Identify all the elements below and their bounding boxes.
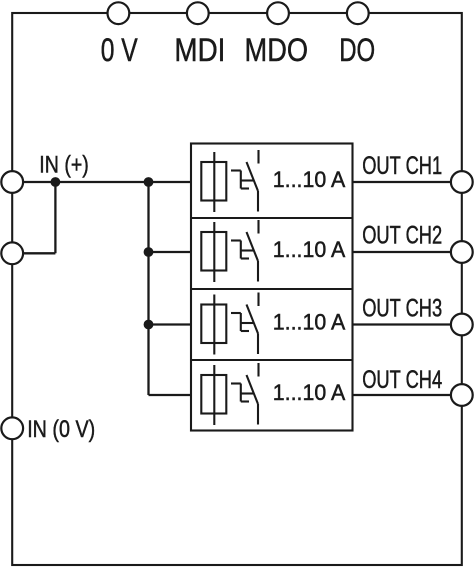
svg-text:OUT CH4: OUT CH4 [362, 366, 442, 394]
terminal DO [347, 2, 369, 24]
junction bus CH3 [144, 320, 154, 330]
terminal 0V [108, 2, 130, 24]
junction IN(+) tap [51, 177, 61, 187]
divider CH1/CH2 [191, 217, 353, 219]
electronic switch S1 (CH1) [231, 150, 259, 212]
fuse F4 (CH4) [201, 365, 226, 425]
wire output CH4 [353, 394, 462, 396]
terminal MDI [187, 2, 209, 24]
terminal OUT CH2 [451, 241, 473, 263]
terminal MDO [267, 2, 289, 24]
wire output CH2 [353, 251, 462, 253]
wire supply bus vertical [147, 182, 149, 395]
svg-text:DO: DO [339, 31, 375, 68]
svg-text:1...10 A: 1...10 A [273, 380, 346, 405]
electronic switch S3 (CH3) [231, 293, 259, 355]
divider CH2/CH3 [191, 288, 353, 290]
terminal IN(0V) [1, 417, 23, 439]
svg-text:OUT CH1: OUT CH1 [362, 152, 442, 180]
svg-text:0 V: 0 V [101, 31, 138, 68]
svg-text:1...10 A: 1...10 A [273, 167, 346, 192]
svg-text:IN (+): IN (+) [39, 152, 89, 179]
svg-text:IN (0 V): IN (0 V) [27, 416, 95, 443]
svg-text:OUT CH2: OUT CH2 [362, 221, 442, 249]
terminal OUT CH4 [451, 384, 473, 406]
junction bus CH1 [144, 177, 154, 187]
wire feed CH4 [149, 394, 192, 396]
wire riser between input terminals [54, 182, 56, 253]
svg-text:MDI: MDI [174, 31, 225, 68]
fuse F3 (CH3) [201, 295, 226, 355]
terminal OUT CH1 [451, 171, 473, 193]
fuse F1 (CH1) [201, 152, 226, 212]
wire output CH3 [353, 323, 462, 325]
channel box stack CH1-CH4 [191, 144, 353, 431]
wire feed CH3 [149, 323, 192, 325]
divider CH3/CH4 [191, 359, 353, 361]
wire lower input terminal horizontal [12, 252, 55, 254]
terminal IN(+) lower [1, 242, 23, 264]
svg-text:MDO: MDO [245, 31, 309, 68]
electronic switch S2 (CH2) [231, 220, 259, 282]
terminal IN(+) upper [1, 171, 23, 193]
wire feed CH2 [149, 251, 192, 253]
junction bus CH2 [144, 247, 154, 257]
svg-text:OUT CH3: OUT CH3 [362, 294, 442, 322]
wire IN(+) feed to CH1 [12, 181, 191, 183]
fuse F2 (CH2) [201, 222, 226, 282]
svg-text:1...10 A: 1...10 A [273, 237, 346, 262]
svg-text:1...10 A: 1...10 A [273, 310, 346, 335]
wire output CH1 [353, 181, 462, 183]
terminal OUT CH3 [451, 314, 473, 336]
electronic switch S4 (CH4) [231, 363, 259, 425]
